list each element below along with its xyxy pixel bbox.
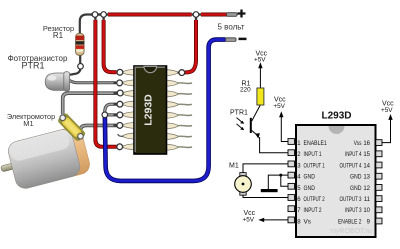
- svg-text:+5V: +5V: [381, 107, 393, 114]
- svg-text:13: 13: [363, 175, 370, 181]
- wire: dark stub below junction 1: [94, 15, 96, 22]
- red wire A: +5V to pin8: [95, 20, 116, 147]
- svg-text:220: 220: [240, 87, 251, 94]
- node: connector at U1 pin 4: [117, 101, 123, 107]
- node: top rail junction 1 (+5V): [92, 12, 98, 18]
- wire: dark stub below junction 2: [102, 15, 104, 22]
- motor terminal 1: [60, 115, 66, 121]
- wire: dark stub at U1 pin 2 connector: [114, 82, 126, 84]
- schematic: IC L293D box: [296, 125, 376, 237]
- wire: top rail dark segment at junction 3: [190, 13, 202, 15]
- Vcc1 arrow line to R1: [259, 66, 261, 88]
- svg-text:OUTPUT 4: OUTPUT 4: [340, 163, 362, 169]
- svg-text:14: 14: [363, 163, 370, 169]
- left pins: [123, 69, 134, 150]
- svg-text:OUTPUT 1: OUTPUT 1: [304, 163, 326, 169]
- svg-text:Vss: Vss: [354, 141, 362, 147]
- svg-text:Vs: Vs: [304, 219, 312, 225]
- svg-text:GND: GND: [350, 186, 362, 192]
- red wire: top rail right segment: [201, 13, 227, 17]
- wire R1 bottom to collector: [252, 105, 260, 121]
- chip notch: [144, 66, 157, 72]
- wire: phototransistor collector lead to junction: [70, 68, 81, 75]
- schematic: resistor R1: [257, 88, 264, 105]
- node: GND tie junction (pins 4,5): [102, 112, 108, 118]
- wire: phototransistor emitter to chip pin2: [69, 80, 116, 83]
- plus symbol: [238, 10, 246, 18]
- wire: ground junction to chip pin4: [105, 104, 117, 112]
- minus symbol: [239, 38, 247, 41]
- svg-text:INPUT 2: INPUT 2: [304, 208, 323, 214]
- wire: dark stub at U1 pin 5 connector: [114, 114, 126, 116]
- svg-text:ENABLE1: ENABLE1: [304, 141, 328, 147]
- red wire B: +5V to pin1: [104, 20, 117, 72]
- svg-text:GND: GND: [304, 186, 316, 192]
- wire: dark stub at U1 pin 8 connector: [114, 146, 126, 148]
- svg-text:M1: M1: [229, 163, 239, 170]
- node: R1 / PTR1 collector junction: [78, 64, 84, 70]
- wire: dark stub below GND tie junction: [104, 115, 106, 120]
- ground wire to pin4: [268, 175, 288, 189]
- svg-text:INPUT 4: INPUT 4: [345, 152, 362, 158]
- motor terminal 2: [78, 133, 84, 139]
- chip body: [134, 66, 167, 154]
- node: top rail junction 3 (+5V): [193, 12, 199, 18]
- red wire C: +5V to pin16: [185, 20, 196, 73]
- IC notch: [329, 126, 345, 134]
- wire: dark stub below junction 3: [195, 15, 197, 22]
- chip L293D (pictorial DIP): [118, 66, 192, 154]
- svg-text:OUTPUT 2: OUTPUT 2: [304, 197, 326, 203]
- motor terminal plate: [57, 112, 86, 142]
- node: connector at U1 pin 8: [117, 144, 123, 150]
- wire: dark stub at U1 pin 1 connector: [114, 71, 126, 73]
- svg-text:15: 15: [363, 152, 370, 158]
- ground branch to pin5: [281, 175, 288, 186]
- wire emitter to pin2: [260, 137, 288, 153]
- IC pin squares left: [288, 139, 382, 224]
- svg-text:PTR1: PTR1: [21, 61, 44, 71]
- right bare pin extension wires: [178, 83, 193, 148]
- pin7 bare hook: [118, 134, 124, 136]
- resistor R1 (pictorial): [76, 33, 85, 55]
- IC pin squares right: [376, 140, 382, 146]
- node: connector at U1 pin 6: [117, 123, 123, 129]
- Vcc4 wire to pin16: [382, 118, 391, 143]
- svg-text:GND: GND: [304, 175, 316, 181]
- wire: motor terminal2 to chip pin6: [81, 125, 118, 134]
- node: connector at U1 pin 3: [117, 90, 123, 96]
- svg-text:INPUT 3: INPUT 3: [345, 208, 362, 214]
- svg-text:L293D: L293D: [321, 111, 351, 122]
- svg-text:+5V: +5V: [254, 57, 266, 64]
- schematic: phototransistor PTR1: [250, 118, 252, 133]
- wire: motor terminal1 to chip pin3: [63, 15, 202, 147]
- right pins: [167, 70, 178, 151]
- wire end ferrule at - terminal: [226, 38, 237, 42]
- svg-text:5 вольт: 5 вольт: [218, 22, 245, 31]
- blue wire: ground loop from pins 4/5 junction to battery minus: [105, 40, 226, 181]
- svg-text:+5V: +5V: [273, 103, 285, 110]
- Vcc3 wire to pin8: [262, 219, 289, 221]
- wire: top rail dark segment between junctions 1-2: [91, 13, 109, 15]
- wire: resistor top lead to top rail: [80, 15, 92, 36]
- svg-text:PTR1: PTR1: [230, 110, 248, 117]
- node: connector at U1 pin 5: [117, 112, 123, 118]
- Vcc2 wire to pin1: [281, 115, 288, 142]
- node: connector at U1 pin 2: [117, 80, 123, 86]
- svg-text:ENABLE 2: ENABLE 2: [338, 219, 362, 225]
- electric motor M1 (pictorial): [0, 112, 92, 193]
- node: connector at U1 pin 1: [117, 69, 123, 75]
- wire: dark stub at U1 pin 16 connector: [177, 72, 187, 74]
- svg-text:R1: R1: [53, 31, 64, 40]
- red wire: top rail left segment: [95, 15, 227, 147]
- wire: ground junction to chip pin5: [107, 113, 118, 116]
- svg-text:12: 12: [363, 186, 370, 192]
- phototransistor PTR1 (pictorial): [45, 72, 69, 92]
- wire: dark stub at U1 pin 6 connector: [114, 124, 126, 126]
- wire: dark stub at U1 pin 4 connector: [114, 103, 126, 105]
- junction dot: [279, 174, 282, 177]
- svg-text:10: 10: [363, 208, 370, 214]
- svg-text:16: 16: [363, 141, 370, 147]
- motor M1 wire to pin6: [243, 195, 288, 197]
- svg-text:GND: GND: [350, 175, 362, 181]
- svg-text:+5V: +5V: [243, 216, 255, 223]
- light arrows: [237, 118, 243, 123]
- svg-text:myROBOT.ru: myROBOT.ru: [330, 228, 372, 235]
- svg-text:М1: М1: [23, 119, 33, 128]
- IC pin labels: [297, 141, 327, 225]
- wire end ferrule at + terminal: [227, 13, 238, 17]
- emitter wire: [252, 131, 259, 137]
- svg-text:OUTPUT 3: OUTPUT 3: [340, 197, 362, 203]
- motor M1 wire to pin3: [243, 164, 288, 173]
- node: connector at U1 pin 16: [179, 70, 185, 76]
- wire: resistor bottom lead: [79, 54, 81, 64]
- wire: dark stub at U1 pin 3 connector: [114, 92, 126, 94]
- svg-text:11: 11: [364, 197, 371, 203]
- schematic: ground symbol: [261, 189, 278, 192]
- svg-text:INPUT 1: INPUT 1: [304, 152, 323, 158]
- svg-text:L293D: L293D: [143, 94, 155, 126]
- node: top rail junction 2 (+5V): [101, 12, 107, 18]
